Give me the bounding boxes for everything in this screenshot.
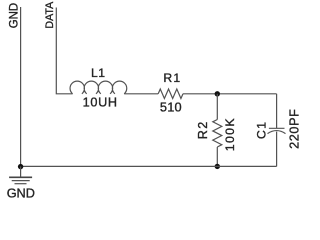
svg-text:510: 510 <box>160 100 182 115</box>
ground symbol <box>9 177 32 183</box>
inductor L1 <box>70 81 127 94</box>
svg-text:R1: R1 <box>163 71 181 85</box>
node junction top of R2 <box>215 91 220 96</box>
label R2 <box>196 120 210 139</box>
wire R2 bottom stub <box>216 147 218 166</box>
svg-text:100K: 100K <box>223 117 237 151</box>
svg-text:R2: R2 <box>196 120 210 139</box>
label C1 <box>254 121 268 139</box>
wire ground stub <box>20 166 22 177</box>
resistor R1 <box>158 89 183 99</box>
svg-text:GND: GND <box>7 3 20 28</box>
capacitor C1 <box>268 128 286 133</box>
wire C1 bottom stub <box>276 132 278 167</box>
svg-text:C1: C1 <box>254 121 268 139</box>
label R1 <box>163 71 181 85</box>
svg-text:10UH: 10UH <box>83 95 118 109</box>
net GND label <box>7 3 20 28</box>
wire bottom rail <box>21 165 277 167</box>
value 220PF <box>287 109 301 149</box>
wire L1 to R1 <box>124 93 158 95</box>
label L1 <box>91 66 105 80</box>
node junction ground <box>18 164 23 169</box>
value 510 <box>160 100 182 115</box>
node junction bottom of R2 <box>215 164 220 169</box>
resistor R2 <box>213 120 222 148</box>
wire DATA drop <box>56 8 72 94</box>
svg-text:DATA: DATA <box>44 1 56 28</box>
svg-text:L1: L1 <box>91 66 105 80</box>
wire GND left rail <box>20 7 22 166</box>
svg-text:GND: GND <box>7 187 35 200</box>
net DATA label <box>44 1 56 28</box>
svg-text:220PF: 220PF <box>287 109 300 149</box>
value 10UH <box>83 95 118 109</box>
label GND (ground) <box>7 187 35 201</box>
wire C1 top stub <box>276 94 278 129</box>
value 100K <box>223 117 237 151</box>
wire R2 top stub <box>216 94 218 120</box>
wire R1 to top-right corner <box>183 93 277 95</box>
